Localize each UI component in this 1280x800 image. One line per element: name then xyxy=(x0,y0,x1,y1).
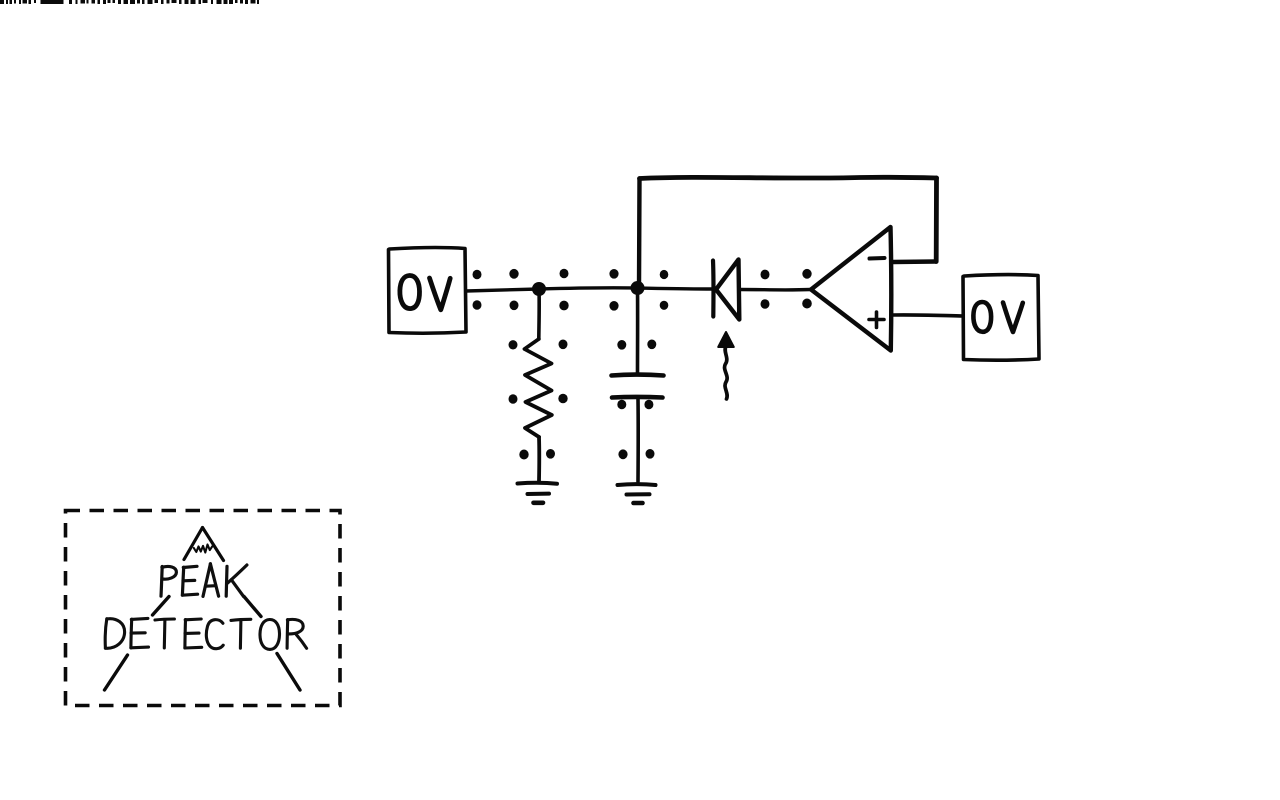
op-amp inverting input label - xyxy=(870,256,885,261)
title text PEAK xyxy=(161,564,247,597)
capacitor C1 bottom plate xyxy=(612,395,663,400)
charge dots below main wire xyxy=(473,299,812,311)
wire: resistor bottom to ground xyxy=(537,437,541,481)
op-amp non-inverting input label + xyxy=(869,312,884,328)
ground symbol (under capacitor) xyxy=(618,484,656,503)
wire: left box to diode xyxy=(466,288,712,291)
charge dots above main wire xyxy=(473,269,812,280)
input source box 0V (left) xyxy=(389,248,467,334)
wire: junction B down to capacitor xyxy=(636,288,640,373)
title text DETECTOR xyxy=(105,618,306,649)
mountain bottom slopes xyxy=(105,654,301,691)
annotation arrow (squiggly, pointing at diode) xyxy=(718,332,734,399)
mountain mid slopes xyxy=(153,597,262,617)
diode D1 triangle xyxy=(716,260,739,320)
node junction A (resistor tap) xyxy=(532,282,546,296)
label OV (left box) xyxy=(400,275,450,309)
wire: non-inverting input to right 0V box xyxy=(893,315,964,316)
reference source box 0V (right) xyxy=(963,275,1039,361)
capacitor C1 top plate xyxy=(612,372,664,378)
dashed title box xyxy=(66,511,341,706)
wire: capacitor bottom to ground xyxy=(636,399,640,482)
cropped caption text strip (top edge) xyxy=(0,0,259,4)
feedback wire: junction B up, across top, down to inverting input xyxy=(639,177,937,288)
op-amp U1 triangle xyxy=(811,227,891,351)
mountain peak drawing xyxy=(184,528,224,561)
node junction B (capacitor / feedback tap) xyxy=(631,281,645,295)
charge dots along capacitor branch xyxy=(617,340,656,460)
ground symbol (under resistor) xyxy=(518,483,558,503)
wire: junction A down to resistor xyxy=(537,289,541,339)
resistor R1 (zigzag) xyxy=(525,339,552,437)
diode D1 cathode bar xyxy=(711,261,716,317)
charge dots along resistor branch xyxy=(509,340,568,460)
label OV (right box) xyxy=(973,302,1022,332)
wire: diode to op-amp output xyxy=(740,288,811,292)
